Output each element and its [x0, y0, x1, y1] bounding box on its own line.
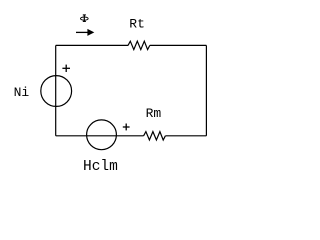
svg-text:Ni: Ni	[14, 85, 30, 100]
svg-text:Hclm: Hclm	[83, 159, 118, 175]
wire left vertical	[55, 45, 57, 135]
svg-text:Rm: Rm	[146, 106, 162, 121]
source Hclm	[87, 120, 117, 150]
polarity plus for Hclm	[123, 124, 130, 131]
wire bottom-middle segment	[56, 135, 144, 137]
wire bottom-right segment	[165, 135, 206, 137]
flux arrow	[76, 29, 94, 36]
wire right vertical	[205, 45, 207, 135]
wire top-right segment	[150, 44, 207, 46]
svg-text:Rt: Rt	[129, 17, 145, 32]
polarity plus for Ni	[62, 65, 70, 72]
source Ni	[41, 76, 72, 107]
resistor Rm	[144, 132, 166, 140]
resistor Rt	[128, 41, 150, 49]
wire top-left segment	[56, 44, 129, 46]
flux symbol Phi	[80, 15, 88, 22]
